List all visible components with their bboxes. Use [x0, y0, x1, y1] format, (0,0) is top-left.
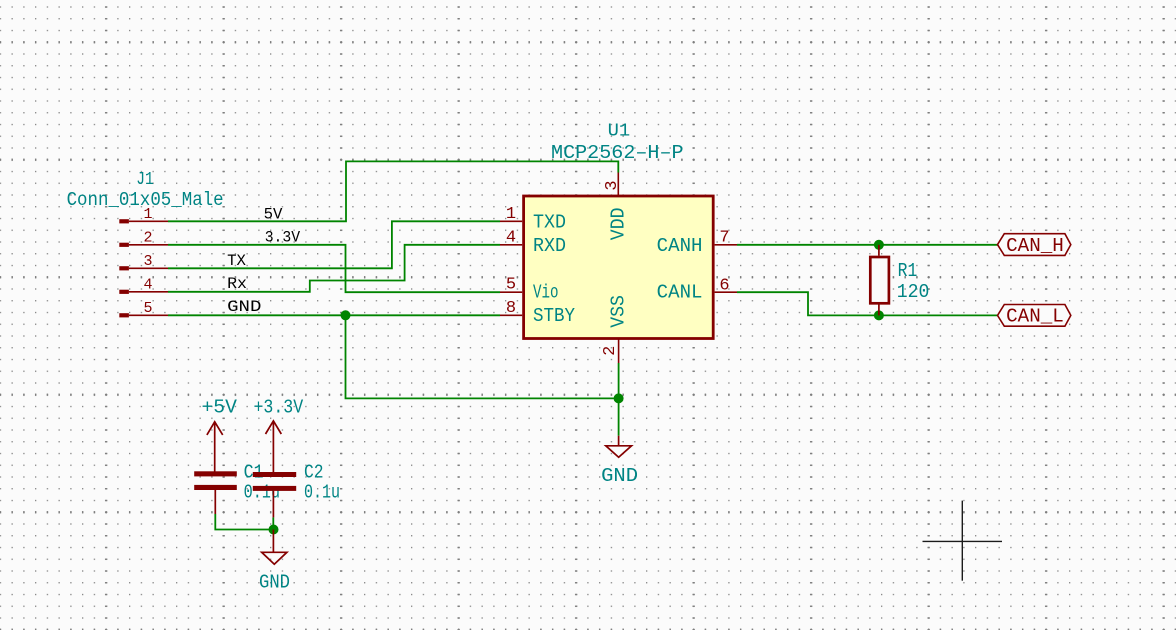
- svg-text:CANH: CANH: [657, 235, 703, 257]
- svg-text:R1: R1: [898, 260, 918, 282]
- svg-text:TX: TX: [227, 252, 246, 270]
- power symbol +3.3V: [253, 396, 303, 472]
- U1 pin 7 CANH: [657, 228, 737, 256]
- svg-text:8: 8: [506, 299, 516, 318]
- wire GND vertical drop to ground net: [346, 315, 619, 398]
- svg-text:CAN_L: CAN_L: [1006, 306, 1064, 328]
- svg-text:+3.3V: +3.3V: [253, 396, 303, 418]
- capacitor C1: [194, 471, 237, 514]
- svg-text:1: 1: [143, 206, 152, 223]
- wire 3.3V from J1 pin 2 to U1 Vio: [168, 245, 500, 292]
- svg-text:1: 1: [506, 205, 516, 224]
- U1 pin 1 TXD: [500, 205, 566, 234]
- wire GND from J1 pin 5 to U1 STBY: [168, 314, 500, 316]
- svg-text:U1: U1: [608, 121, 631, 141]
- svg-text:2: 2: [143, 229, 152, 246]
- U1 pin 2 VSS bottom: [601, 295, 630, 363]
- U1 pin 6 CANL: [657, 276, 737, 303]
- wire CANH to CAN_H label: [737, 244, 998, 246]
- cursor crosshair: [923, 501, 1003, 581]
- resistor R1: [870, 245, 889, 316]
- capacitor C2: [253, 472, 296, 517]
- global label CAN_H: [998, 234, 1071, 257]
- svg-text:120: 120: [897, 281, 930, 303]
- junction CANL at R1 bottom: [874, 310, 884, 320]
- svg-text:3: 3: [603, 180, 622, 190]
- power symbol +5V: [202, 396, 238, 471]
- svg-text:+5V: +5V: [202, 396, 238, 418]
- wire TX from J1 pin 3 to U1 TXD: [168, 221, 500, 268]
- junction below capacitors: [269, 525, 279, 535]
- wire Rx from J1 pin 4 to U1 RXD: [168, 245, 500, 292]
- wire VSS pin to ground symbol: [618, 363, 620, 436]
- svg-text:4: 4: [143, 276, 152, 293]
- wire C2 bottom to ground junction: [272, 517, 274, 529]
- svg-text:7: 7: [719, 228, 729, 247]
- connector J1 pin 4: [119, 276, 168, 294]
- svg-text:0.1u: 0.1u: [244, 482, 280, 504]
- svg-text:GND: GND: [227, 298, 261, 316]
- connector J1 pin 1: [119, 206, 168, 224]
- svg-text:GND: GND: [259, 572, 290, 594]
- junction below U1 VSS: [614, 393, 624, 403]
- global label CAN_L: [998, 305, 1071, 328]
- svg-text:5: 5: [506, 276, 516, 295]
- svg-text:Rx: Rx: [227, 275, 247, 293]
- svg-text:5: 5: [143, 300, 152, 317]
- svg-text:6: 6: [719, 276, 729, 295]
- junction CANH at R1 top: [874, 240, 884, 250]
- connector J1 pin 5: [119, 300, 168, 318]
- ground symbol below capacitors: [259, 530, 290, 594]
- wire CANL to CAN_L label: [737, 292, 998, 315]
- svg-text:CAN_H: CAN_H: [1006, 235, 1064, 257]
- svg-text:TXD: TXD: [533, 211, 566, 233]
- junction on GND wire at J1 column: [341, 310, 351, 320]
- svg-text:MCP2562–H–P: MCP2562–H–P: [551, 142, 684, 164]
- svg-text:RXD: RXD: [533, 235, 566, 257]
- svg-text:4: 4: [506, 228, 516, 247]
- svg-text:2: 2: [601, 346, 620, 356]
- U1 pin 8 STBY: [500, 299, 576, 327]
- U1 pin 3 VDD top: [603, 173, 630, 241]
- svg-text:VDD: VDD: [608, 208, 630, 241]
- svg-text:CANL: CANL: [657, 282, 703, 304]
- connector J1 pin 2: [119, 229, 168, 247]
- svg-text:GND: GND: [601, 465, 638, 487]
- svg-text:J1: J1: [136, 170, 154, 190]
- svg-text:0.1u: 0.1u: [304, 482, 340, 504]
- U1 pin 4 RXD: [500, 228, 566, 256]
- svg-text:C2: C2: [304, 462, 324, 484]
- svg-text:VSS: VSS: [608, 295, 630, 328]
- wire 5V from J1 pin 1 to U1 VDD: [168, 161, 618, 221]
- wire C1 bottom to ground junction: [215, 514, 273, 530]
- svg-text:3.3V: 3.3V: [265, 228, 301, 246]
- IC U1 body: [524, 196, 714, 339]
- connector J1 pin 3: [119, 253, 168, 271]
- ground symbol below U1: [601, 436, 638, 487]
- svg-text:3: 3: [143, 253, 152, 270]
- U1 pin 5 Vio: [500, 276, 559, 304]
- svg-text:STBY: STBY: [533, 305, 576, 327]
- svg-text:Vio: Vio: [533, 282, 559, 304]
